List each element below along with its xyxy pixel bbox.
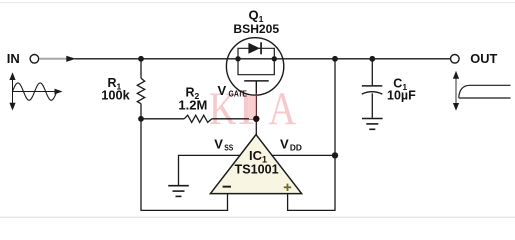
node right rail junction [332,56,338,62]
step line bottom [459,97,511,99]
svg-text:SS: SS [224,142,233,152]
node C1 junction [369,56,375,62]
svg-text:1.2M: 1.2M [178,97,207,112]
node VGATE junction [253,116,259,122]
node OUT terminal [451,55,460,64]
svg-text:TS1001: TS1001 [235,162,279,176]
transistor Q1 BSH205 MOSFET [226,38,283,95]
wire gate lead upper [255,81,257,93]
C1 curved bottom plate [362,92,383,94]
top faint border [0,2,515,3]
node VDD junction [332,152,338,158]
sine wave [12,83,56,100]
C1 bottom lead [371,93,373,118]
Q1 drain dot [272,56,277,61]
Q1 body circle [226,38,283,95]
svg-text:DD: DD [290,142,302,152]
svg-text:IN: IN [7,51,20,66]
op-amp IC1 TS1001 [210,135,301,194]
svg-text:V: V [214,136,223,151]
svg-text:100k: 100k [101,88,130,103]
svg-text:OUT: OUT [470,51,497,66]
step curve top [459,85,511,97]
wire through Q1 [227,58,284,60]
Q1 channel [238,59,274,75]
vertical double arrow [12,78,14,106]
Q1 source dot [235,56,240,61]
watermark bleed near gate lead [249,96,256,119]
wire node to op-amp output apex [255,119,257,135]
IN sine waveform icon [9,72,62,110]
svg-text:GATE: GATE [229,88,248,98]
wire Q1 drain to OUT [284,58,451,60]
wire R1 bottom lead [140,104,142,119]
ground (C1) [362,119,383,130]
C1 top plate [362,85,383,87]
op-amp non-inverting input plus sign [284,184,291,191]
wire arrowhead on input [66,56,76,62]
Q1 body diode triangle [248,43,260,54]
Q1 body-diode connection [238,48,274,59]
OUT step waveform icon [453,71,511,111]
resistor R1 [137,78,144,104]
wire gate lead (tinted by watermark) [255,93,257,119]
bottom faint border [0,217,515,218]
op-amp inverting input minus sign [223,186,231,188]
wire R1 top lead [140,59,142,78]
wire R2 to gate node [212,118,256,120]
horizontal axis with arrow [13,91,58,93]
wire VSS from op-amp [179,155,241,185]
svg-text:A: A [269,84,297,135]
resistor R1 node dot (junction on input wire) [138,56,144,62]
wire VDD from op-amp to right rail [271,154,335,156]
watermark KIA [209,82,296,135]
svg-text:V: V [280,136,289,151]
wire node to R2 [141,118,184,120]
wire right rail (output to VDD and + input) [288,59,335,211]
wire gray input segment [39,58,67,60]
svg-text:10µF: 10µF [387,88,416,102]
node R1/R2 junction [138,116,144,122]
resistor R2 [184,115,212,122]
Q1 gate plate [244,80,269,82]
ground (VSS) [168,186,189,197]
wire left feedback rail [141,119,228,211]
Q1 body diode cathode bar [260,42,262,54]
vertical double arrow [455,77,457,105]
svg-text:BSH205: BSH205 [233,22,279,36]
C1 top lead [371,59,373,86]
wire IN to Q1 [75,58,228,60]
capacitor C1 [362,59,383,118]
svg-text:V: V [218,83,227,98]
node IN terminal [30,55,39,64]
